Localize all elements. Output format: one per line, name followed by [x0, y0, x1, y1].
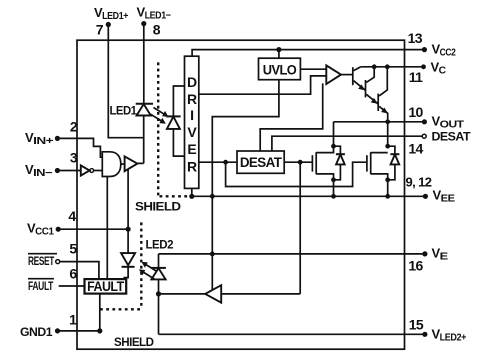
svg-text:10: 10 — [408, 104, 423, 120]
svg-text:13: 13 — [408, 30, 423, 46]
photodiode PD2 — [121, 229, 135, 279]
LED1 light arrows — [151, 108, 169, 124]
driver block — [185, 56, 199, 188]
svg-text:FAULT: FAULT — [87, 278, 124, 294]
comparator U2 — [260, 65, 353, 151]
svg-text:4: 4 — [68, 208, 76, 224]
wire FAULT block to GND1 — [99, 294, 101, 331]
inverter U4 — [81, 165, 102, 175]
pin 14 DESAT line — [272, 130, 471, 157]
pin 15 VLED2+ — [159, 317, 467, 344]
svg-text:11: 11 — [409, 69, 423, 85]
svg-text:8: 8 — [153, 22, 161, 38]
svg-text:E: E — [187, 141, 196, 157]
photodiode PD1 — [166, 86, 184, 156]
buffer U6 — [125, 156, 138, 229]
wire AND gate to FAULT block — [106, 177, 108, 280]
LED2 — [146, 238, 174, 335]
svg-text:DESAT: DESAT — [240, 154, 282, 170]
DESAT block — [237, 151, 284, 173]
svg-text:2: 2 — [70, 119, 78, 135]
wire DESAT to MOSFET gates — [284, 161, 312, 163]
wire UVLO right to comparator input 1 — [300, 68, 326, 70]
svg-text:LED1: LED1 — [110, 104, 138, 118]
svg-text:16: 16 — [408, 258, 423, 274]
MOSFET M1 — [312, 146, 336, 196]
svg-text:I: I — [190, 107, 193, 123]
svg-text:GND1: GND1 — [20, 325, 53, 339]
svg-text:RESET: RESET — [28, 254, 55, 268]
wire DRIVER to comparator input 2 — [199, 76, 326, 94]
wire DRIVER to DESAT — [199, 161, 237, 163]
body diode D2 — [388, 146, 400, 180]
pin 16 VE — [408, 246, 448, 274]
svg-text:6: 6 — [69, 266, 77, 282]
pin 3 VIN- — [25, 150, 81, 180]
pin 11 VC — [405, 60, 446, 85]
pin 4 VCC1 — [27, 208, 131, 238]
svg-text:5: 5 — [69, 241, 77, 257]
pin 8 VLED1- — [137, 5, 172, 104]
LED2 light arrows — [139, 262, 157, 279]
svg-text:R: R — [187, 159, 197, 175]
wire UVLO bottom to node column — [212, 80, 279, 290]
VE line — [159, 253, 423, 255]
MOSFET M2 — [367, 152, 390, 196]
svg-text:R: R — [187, 91, 197, 107]
pin 2 VIN+ — [25, 119, 102, 158]
svg-text:LED2: LED2 — [146, 238, 174, 252]
svg-text:15: 15 — [409, 317, 424, 333]
pins 9,12 VEE — [405, 175, 456, 205]
FAULT block — [85, 278, 127, 294]
svg-text:SHIELD: SHIELD — [114, 335, 154, 349]
svg-text:9, 12: 9, 12 — [406, 175, 432, 190]
AND gate U5 — [102, 152, 124, 177]
IC package outline — [77, 40, 405, 349]
svg-text:1: 1 — [69, 312, 77, 328]
svg-text:V: V — [187, 124, 197, 140]
pin 5 RESET — [28, 241, 99, 280]
VC rail — [361, 66, 405, 68]
pin 13 VCC2 — [405, 30, 457, 58]
transistor Q2 — [366, 67, 379, 104]
svg-text:UVLO: UVLO — [263, 62, 297, 78]
shield dashed line (upper) — [158, 62, 189, 196]
shield dashed line (lower) — [99, 222, 142, 309]
transistor Q1 — [353, 67, 366, 91]
svg-text:7: 7 — [96, 22, 104, 38]
pin 6 FAULT — [28, 266, 85, 294]
transistor Q3 — [378, 67, 388, 122]
svg-text:14: 14 — [408, 141, 423, 157]
svg-text:FAULT: FAULT — [28, 279, 54, 293]
body diode D1 — [334, 146, 345, 180]
VCC2 rail — [192, 50, 404, 57]
LED1 — [110, 104, 154, 164]
pin 10 VOUT — [408, 104, 464, 131]
pin 1 GND1 — [20, 312, 102, 340]
UVLO block — [259, 47, 301, 80]
svg-text:SHIELD: SHIELD — [135, 200, 181, 214]
svg-text:DESAT: DESAT — [432, 130, 472, 144]
pin 7 VLED1+ — [94, 5, 144, 138]
svg-text:3: 3 — [70, 150, 78, 166]
comparator U3 — [159, 162, 301, 302]
svg-text:D: D — [187, 74, 197, 90]
VEE rail — [192, 188, 405, 196]
VOUT line — [334, 121, 423, 123]
